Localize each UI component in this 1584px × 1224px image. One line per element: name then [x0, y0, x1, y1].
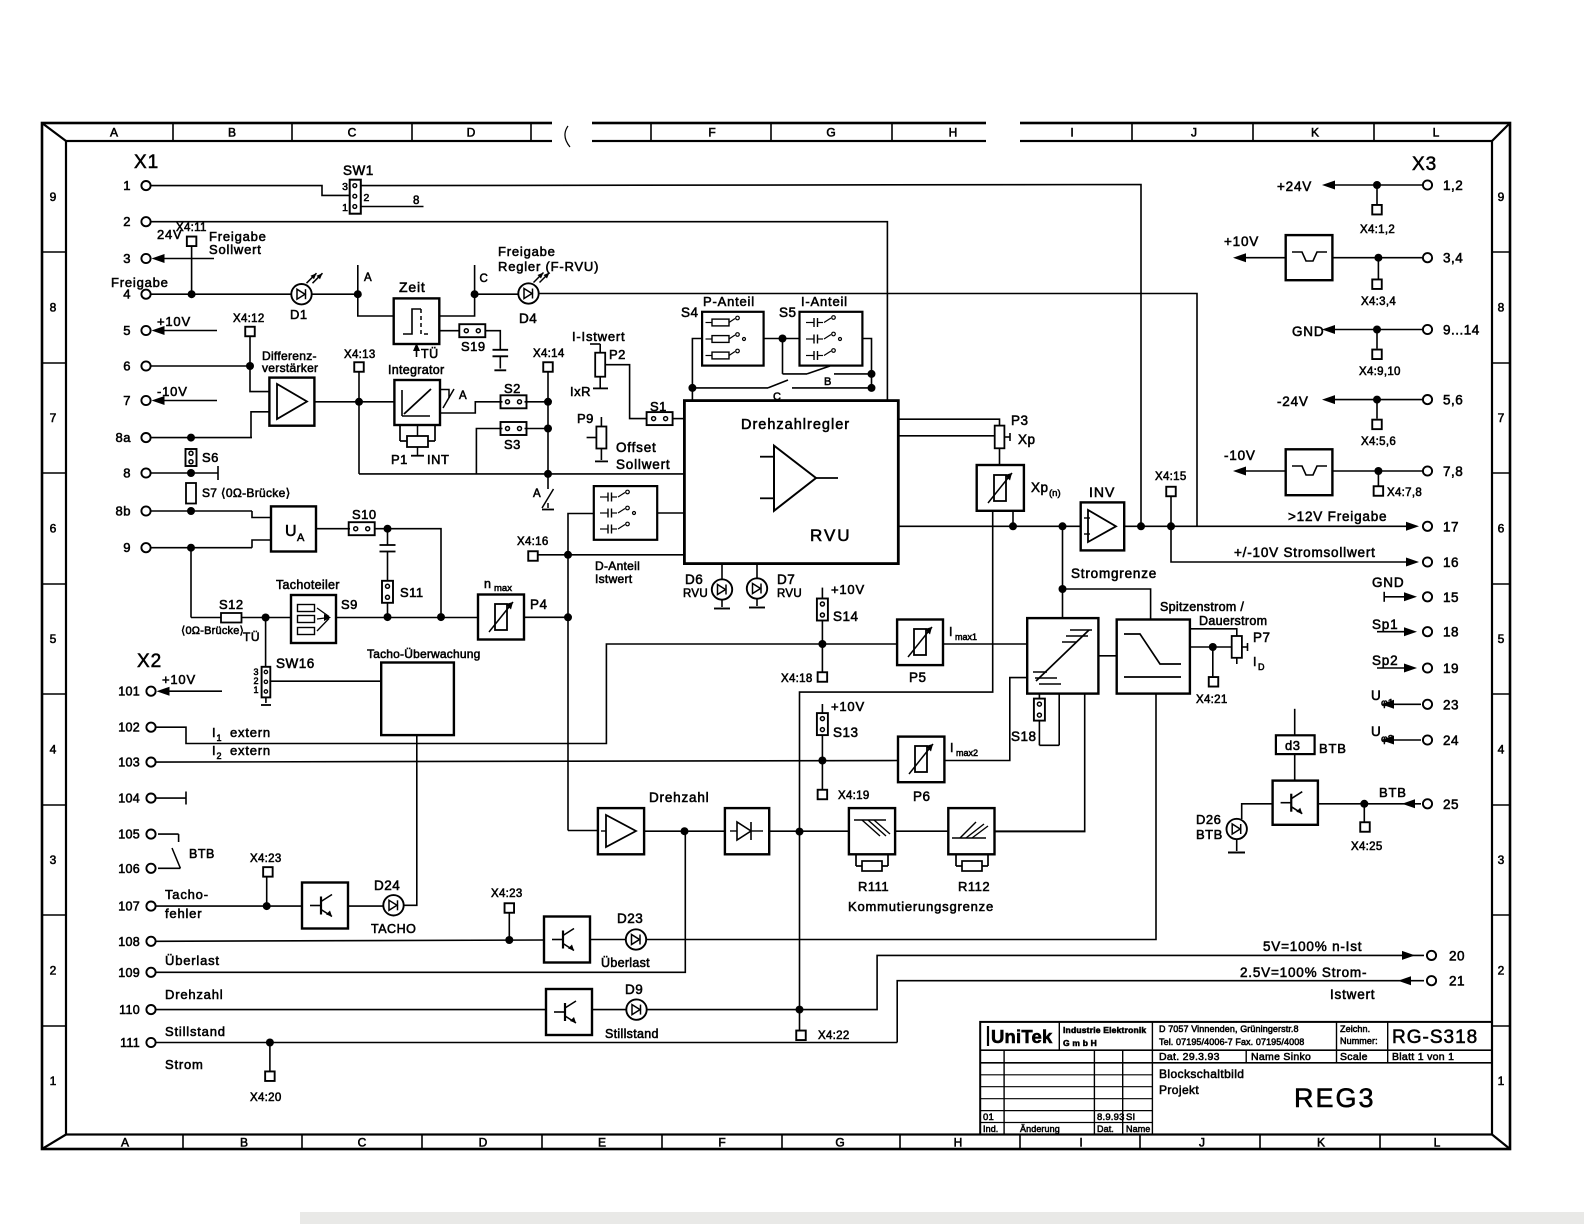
label Kommutierungsgrenze	[848, 899, 994, 914]
wire X1-1 to SW1	[151, 186, 350, 196]
wire BTB out pin 25	[1318, 785, 1459, 812]
svg-text:TÜ: TÜ	[421, 347, 439, 361]
X4:23 tap (108)	[491, 888, 523, 940]
X3 pins 9..14 GND	[1292, 323, 1480, 340]
svg-text:P6: P6	[913, 789, 931, 804]
svg-text:A: A	[110, 126, 118, 140]
wire TachoUeberwachung down to D24	[404, 735, 417, 905]
wire Stromgrenze to block2	[1063, 589, 1151, 620]
X2 pin 110	[119, 1003, 155, 1017]
svg-text:TACHO: TACHO	[371, 922, 416, 936]
svg-text:6: 6	[50, 522, 57, 536]
X2 pin 101	[118, 685, 155, 699]
svg-text:RVU: RVU	[777, 588, 802, 600]
X3 pin 19 Sp2	[1372, 653, 1459, 676]
svg-text:6: 6	[1498, 522, 1505, 536]
block Tacho-Ueberwachung	[367, 647, 480, 735]
svg-text:BTB: BTB	[1319, 741, 1347, 756]
svg-text:2: 2	[123, 214, 131, 229]
svg-text:U: U	[1371, 724, 1381, 739]
label Offset Sollwert	[616, 440, 670, 472]
svg-text:fehler: fehler	[165, 906, 202, 921]
svg-text:S14: S14	[833, 609, 859, 624]
label Drehzahl	[165, 987, 223, 1002]
wire XPn left drop	[796, 511, 993, 1010]
svg-text:D26: D26	[1196, 812, 1221, 827]
svg-text:X4:13: X4:13	[344, 349, 376, 361]
svg-text:8.9.93: 8.9.93	[1097, 1112, 1125, 1123]
X1 pin 8a	[116, 430, 151, 445]
label Spitzenstrom Dauerstrom	[1160, 600, 1267, 628]
svg-text:-10V: -10V	[1224, 448, 1256, 463]
svg-text:I: I	[1253, 655, 1256, 669]
jumper S11	[382, 581, 424, 621]
svg-text:X4:25: X4:25	[1351, 841, 1383, 853]
X2-101 +10V arrow	[157, 672, 223, 696]
svg-text:9: 9	[1498, 190, 1505, 204]
svg-text:Freigabe: Freigabe	[111, 275, 169, 290]
svg-text:Integrator: Integrator	[388, 363, 445, 377]
X1-3 24V arrow	[152, 227, 215, 263]
wire Tachoteiler to nmax	[336, 617, 478, 619]
svg-text:RG-S318: RG-S318	[1392, 1027, 1478, 1048]
svg-text:RVU: RVU	[810, 526, 852, 545]
wire S4 left leg	[692, 339, 702, 388]
opamp Differenzverstaerker	[262, 349, 318, 426]
svg-text:C: C	[348, 126, 357, 140]
svg-text:X4:1,2: X4:1,2	[1360, 224, 1395, 236]
svg-text:L: L	[1433, 126, 1440, 140]
svg-text:9...14: 9...14	[1443, 323, 1480, 338]
svg-text:+10V: +10V	[831, 582, 865, 597]
wire X4:13 node to offset rail	[358, 402, 360, 474]
svg-text:S19: S19	[461, 339, 486, 354]
capswitch box D-Anteil	[594, 486, 657, 540]
svg-text:Drehzahlregler: Drehzahlregler	[741, 417, 850, 433]
svg-text:7,8: 7,8	[1443, 464, 1463, 479]
svg-text:B: B	[228, 126, 236, 140]
X4:16 tap	[517, 536, 572, 561]
svg-text:X4:22: X4:22	[818, 1030, 850, 1042]
svg-text:Nummer:: Nummer:	[1340, 1036, 1378, 1046]
svg-text:109: 109	[118, 966, 140, 980]
svg-text:S3: S3	[504, 437, 521, 452]
jumper S6	[186, 449, 219, 466]
block Tachoteiler	[276, 578, 358, 643]
wire A to Zeit	[358, 294, 394, 316]
X1 pin 9	[123, 540, 150, 555]
svg-text:X4:23: X4:23	[250, 853, 282, 865]
svg-text:104: 104	[118, 792, 140, 806]
svg-text:2.5V=100% Strom-: 2.5V=100% Strom-	[1240, 965, 1367, 980]
svg-text:verstärker: verstärker	[262, 361, 318, 375]
X4:25 tap	[1351, 804, 1383, 853]
X2 pin 103	[118, 756, 155, 770]
wire X1-8b to UA	[151, 507, 271, 518]
wire UA to S10	[316, 528, 350, 530]
svg-text:3: 3	[342, 181, 348, 193]
X1 pin 1	[123, 178, 150, 193]
svg-text:SW16: SW16	[276, 656, 315, 671]
svg-text:Zeit: Zeit	[399, 279, 426, 295]
label TU with arrow	[413, 343, 439, 361]
wire +10V to pin 3,4	[1332, 251, 1463, 266]
X4:11 tap	[176, 222, 207, 294]
diode box	[725, 808, 769, 854]
svg-text:SW1: SW1	[343, 163, 374, 178]
svg-text:F: F	[718, 1136, 725, 1150]
LED D24	[371, 878, 416, 936]
switch box S4 P-Anteil	[681, 294, 764, 366]
connector X3 label	[1412, 154, 1437, 175]
optocoupler Tachofehler	[302, 883, 348, 929]
block P6	[898, 737, 944, 804]
wire integrator to S2	[440, 402, 503, 413]
wire X1-6 to diffamp	[151, 362, 270, 392]
svg-text:5: 5	[123, 323, 131, 338]
block UA	[271, 506, 316, 551]
X4:19 tap	[818, 761, 870, 803]
svg-text:15: 15	[1443, 590, 1459, 605]
X3 pin 17 Freigabe	[1197, 509, 1459, 534]
svg-text:BTB: BTB	[189, 847, 215, 861]
svg-text:-24V: -24V	[1277, 394, 1309, 409]
X4:20 tap	[250, 1043, 282, 1105]
svg-text:8: 8	[1498, 301, 1505, 315]
wire 111 to pin21	[897, 981, 1424, 1043]
X3 pins 1,2 +24V	[1277, 178, 1463, 194]
svg-text:Tacho-: Tacho-	[165, 887, 209, 902]
svg-text:P7: P7	[1253, 630, 1271, 645]
svg-text:P3: P3	[1011, 413, 1029, 428]
svg-text:GND: GND	[1372, 575, 1404, 590]
svg-text:9: 9	[50, 190, 57, 204]
svg-text:G: G	[835, 1136, 844, 1150]
svg-text:P4: P4	[530, 597, 548, 612]
svg-text:⟨0Ω-Brücke⟩: ⟨0Ω-Brücke⟩	[181, 625, 244, 637]
wire R112 out	[995, 830, 1085, 832]
X1 pin 2	[123, 214, 150, 229]
wire S10 to rail	[375, 525, 445, 621]
svg-text:S11: S11	[400, 585, 424, 600]
svg-text:Xp: Xp	[1018, 432, 1036, 447]
svg-text:Blatt 1 von 1: Blatt 1 von 1	[1392, 1051, 1454, 1063]
svg-text:25: 25	[1443, 797, 1459, 812]
svg-text:110: 110	[119, 1003, 140, 1017]
pot P2	[570, 344, 626, 399]
X3 pin 18 Sp1	[1372, 617, 1459, 640]
wire XPn to INV line	[1009, 511, 1017, 531]
svg-text:Xp: Xp	[1031, 480, 1049, 495]
X2 pin 107	[118, 900, 155, 914]
wire Zeit to S19	[439, 330, 460, 332]
svg-text:A: A	[297, 532, 305, 544]
wire S5 to right leg	[862, 339, 871, 388]
svg-text:G m b H: G m b H	[1063, 1038, 1097, 1048]
relay d3	[1276, 735, 1347, 756]
svg-text:Regler (F-RVU): Regler (F-RVU)	[498, 259, 599, 274]
wire amp out	[644, 827, 725, 835]
svg-text:P9: P9	[577, 411, 594, 426]
svg-text:K: K	[1311, 126, 1319, 140]
X4:5,6 tap	[1361, 400, 1396, 448]
svg-text:16: 16	[1443, 555, 1459, 570]
svg-text:+10V: +10V	[831, 699, 865, 714]
+10V stub S13	[822, 699, 865, 714]
label D-Anteil Istwert	[595, 559, 640, 586]
svg-text:Zeichn.: Zeichn.	[1340, 1024, 1370, 1034]
svg-text:X4:15: X4:15	[1155, 471, 1187, 483]
svg-text:Ind.: Ind.	[983, 1124, 998, 1134]
wire between blocks	[1098, 655, 1116, 657]
svg-text:S12: S12	[219, 597, 244, 612]
wire X1-2 to RVU	[151, 222, 888, 401]
svg-text:C: C	[358, 1136, 367, 1150]
svg-text:>12V Freigabe: >12V Freigabe	[1288, 509, 1387, 524]
label I-Istwert	[572, 329, 625, 344]
svg-text:Istwert: Istwert	[1330, 987, 1375, 1002]
svg-text:1: 1	[1498, 1074, 1505, 1088]
svg-text:8: 8	[50, 301, 57, 315]
svg-text:105: 105	[118, 828, 140, 842]
svg-text:S10: S10	[352, 507, 377, 522]
wire P5 out Imax1	[943, 625, 1027, 644]
svg-text:+10V: +10V	[1224, 234, 1259, 249]
wire 108 row	[156, 936, 544, 944]
pot P3 Xp	[995, 413, 1036, 448]
svg-text:D: D	[467, 126, 476, 140]
svg-text:1: 1	[342, 202, 348, 214]
svg-text:D4: D4	[519, 311, 537, 326]
svg-text:24: 24	[1443, 733, 1459, 748]
svg-text:K: K	[1317, 1136, 1325, 1150]
svg-text:7: 7	[123, 393, 131, 408]
X1 pin 7	[123, 393, 150, 408]
X3 pin 20 n-Ist	[1263, 939, 1465, 963]
svg-text:+10V: +10V	[162, 672, 196, 687]
switch A at integrator	[440, 389, 467, 408]
LED D9	[605, 982, 659, 1041]
svg-text:+24V: +24V	[1277, 179, 1312, 194]
svg-text:7: 7	[50, 411, 57, 425]
svg-text:Stillstand: Stillstand	[605, 1027, 659, 1041]
svg-text:I-Anteil: I-Anteil	[801, 294, 848, 309]
X4:14 tap	[533, 348, 565, 402]
jumper S1	[647, 399, 673, 425]
svg-text:D-Anteil: D-Anteil	[595, 559, 640, 573]
wire P2 to S1	[605, 365, 646, 419]
X1 pin 8b	[116, 504, 151, 519]
svg-text:3: 3	[50, 853, 57, 867]
svg-text:8: 8	[123, 466, 131, 481]
capacitor above S11	[380, 529, 396, 581]
switch SW1	[342, 163, 374, 214]
svg-text:H: H	[954, 1136, 963, 1150]
jumper S19	[459, 324, 485, 354]
wire S3 left leg	[476, 429, 502, 474]
svg-text:I: I	[1070, 126, 1073, 140]
amp Drehzahl	[598, 790, 710, 854]
svg-text:1: 1	[253, 685, 258, 695]
svg-text:INV: INV	[1089, 484, 1115, 500]
svg-text:2: 2	[217, 751, 222, 761]
wire R111 to R112	[895, 830, 948, 832]
block nmax P4	[478, 577, 548, 640]
jumper S2	[501, 381, 527, 408]
capacitor at S19	[493, 350, 509, 371]
svg-text:+/-10V Stromsollwert: +/-10V Stromsollwert	[1234, 545, 1376, 560]
wire d3 to BTB box	[1294, 754, 1296, 781]
svg-text:5: 5	[1498, 632, 1505, 646]
svg-text:Tacho-Überwachung: Tacho-Überwachung	[367, 647, 480, 661]
X4:12 tap	[233, 313, 265, 366]
svg-text:B: B	[240, 1136, 248, 1150]
wire D4 to pin17 drop	[538, 294, 1197, 527]
svg-text:Kommutierungsgrenze: Kommutierungsgrenze	[848, 899, 994, 914]
svg-text:G: G	[826, 126, 835, 140]
svg-text:X4:5,6: X4:5,6	[1361, 436, 1396, 448]
svg-text:RVU: RVU	[683, 588, 708, 600]
wire to D24	[348, 905, 383, 907]
X3 pin 16 Stromsollwert	[1186, 545, 1459, 570]
svg-text:1: 1	[217, 733, 222, 743]
X2 pin 108	[118, 935, 155, 949]
svg-text:3: 3	[123, 251, 131, 266]
wire RVU out top	[898, 419, 999, 425]
svg-text:Sp2: Sp2	[1372, 653, 1398, 668]
svg-text:Offset: Offset	[616, 440, 657, 455]
svg-text:U: U	[285, 523, 297, 540]
wire C to D4	[475, 293, 519, 295]
svg-text:extern: extern	[230, 725, 271, 740]
svg-text:S5: S5	[779, 305, 797, 320]
X1 pin 6	[123, 359, 150, 374]
jumper S14	[817, 599, 859, 645]
svg-text:8: 8	[413, 195, 419, 207]
svg-text:X4:23: X4:23	[491, 888, 523, 900]
wire S12 to Tachoteiler	[242, 614, 292, 622]
X4:15 tap	[1155, 471, 1187, 526]
svg-text:2: 2	[50, 964, 57, 978]
label Freigabe Sollwert	[209, 229, 267, 257]
label Ueberlast	[165, 953, 220, 968]
wire BTB left to D26	[1242, 804, 1273, 819]
LED D1	[290, 273, 323, 322]
node C tap	[471, 265, 488, 298]
offset rail to RVU	[359, 470, 684, 478]
wire P6 out Imax2	[944, 678, 1027, 761]
switch C rail	[688, 380, 875, 403]
X2 pin 102	[118, 721, 155, 735]
switch A below rail	[533, 474, 554, 510]
svg-text:Blockschaltbild: Blockschaltbild	[1159, 1067, 1244, 1081]
wire SW1-1 net 8 stub	[361, 195, 424, 207]
svg-text:S13: S13	[833, 725, 859, 740]
svg-text:Dat.: Dat.	[1097, 1124, 1114, 1134]
svg-text:17: 17	[1443, 519, 1459, 534]
X4:1,2 tap	[1360, 185, 1395, 236]
svg-text:I: I	[212, 725, 216, 740]
wire P4 out	[524, 616, 568, 618]
block Kennlinie scurve	[1117, 620, 1190, 694]
resistor S7	[186, 483, 291, 504]
svg-text:X1: X1	[134, 152, 159, 173]
wire I2 extern	[152, 743, 899, 765]
X3 pin 21 Strom-Istwert	[1240, 965, 1465, 1002]
wire 110 row	[156, 1009, 546, 1011]
block R111	[849, 808, 895, 894]
svg-text:Spitzenstrom /: Spitzenstrom /	[1160, 600, 1244, 614]
X3 pins 5,6 -24V	[1277, 393, 1463, 409]
optocoupler Stillstand	[546, 989, 592, 1035]
svg-text:Überlast: Überlast	[165, 953, 220, 968]
svg-text:D23: D23	[617, 911, 643, 926]
svg-text:D9: D9	[625, 982, 643, 997]
svg-text:Stromgrenze: Stromgrenze	[1071, 566, 1157, 581]
X1 pin 3	[123, 251, 150, 266]
svg-text:106: 106	[118, 862, 140, 876]
svg-text:P-Anteil: P-Anteil	[703, 294, 755, 309]
wire istwert rail to RVU	[568, 554, 684, 556]
wire SW16 to TachoUeberwachung	[270, 680, 381, 682]
X1 pin 8	[123, 466, 150, 481]
svg-text:I: I	[949, 625, 952, 639]
svg-text:D: D	[1258, 662, 1265, 672]
X4:7,8 tap	[1374, 471, 1422, 499]
block Strombegrenzung ramp	[1027, 618, 1098, 694]
svg-text:R111: R111	[858, 879, 889, 894]
svg-text:GND: GND	[1292, 324, 1324, 339]
svg-text:extern: extern	[230, 743, 271, 758]
wire D9 to pin20 riser	[646, 955, 1424, 1013]
svg-text:Istwert: Istwert	[595, 572, 633, 586]
wire C to RVU box	[691, 388, 693, 401]
header SW16	[253, 618, 314, 706]
svg-text:max: max	[494, 583, 512, 594]
svg-text:-10V: -10V	[157, 384, 188, 399]
X4:9,10 tap	[1359, 330, 1401, 379]
wire I1 extern	[152, 640, 898, 744]
svg-text:BTB: BTB	[1379, 785, 1407, 800]
svg-text:X4:16: X4:16	[517, 536, 549, 548]
block XPn	[977, 465, 1061, 511]
X4:13 tap	[344, 349, 376, 402]
svg-text:X4:3,4: X4:3,4	[1361, 296, 1396, 308]
svg-text:A: A	[121, 1136, 129, 1150]
wire down to d3	[1294, 709, 1296, 736]
svg-text:Überlast: Überlast	[601, 956, 650, 970]
svg-text:D6: D6	[685, 572, 703, 587]
resistor S12	[181, 597, 260, 644]
node A tap	[354, 265, 372, 298]
svg-text:S2: S2	[504, 381, 521, 396]
svg-text:X4:11: X4:11	[176, 222, 207, 234]
svg-text:REG3: REG3	[1294, 1083, 1376, 1113]
wire S19 to capacitor	[485, 331, 500, 350]
wire SW1-3 net B long	[361, 185, 1141, 527]
wire D-Anteil right to RVU	[657, 512, 684, 514]
wire 111 row	[156, 1039, 898, 1047]
block INV	[1081, 484, 1125, 550]
X2 pin 111	[120, 1036, 156, 1050]
svg-text:B: B	[824, 376, 831, 388]
svg-text:Dauerstrom: Dauerstrom	[1199, 614, 1267, 628]
X4:18 tap	[781, 644, 827, 685]
wire D-Anteil left leg	[568, 514, 594, 555]
wire block1 bottom right leg	[995, 694, 1084, 832]
block Drehzahlregler RVU	[684, 401, 898, 564]
svg-text:103: 103	[118, 756, 140, 770]
